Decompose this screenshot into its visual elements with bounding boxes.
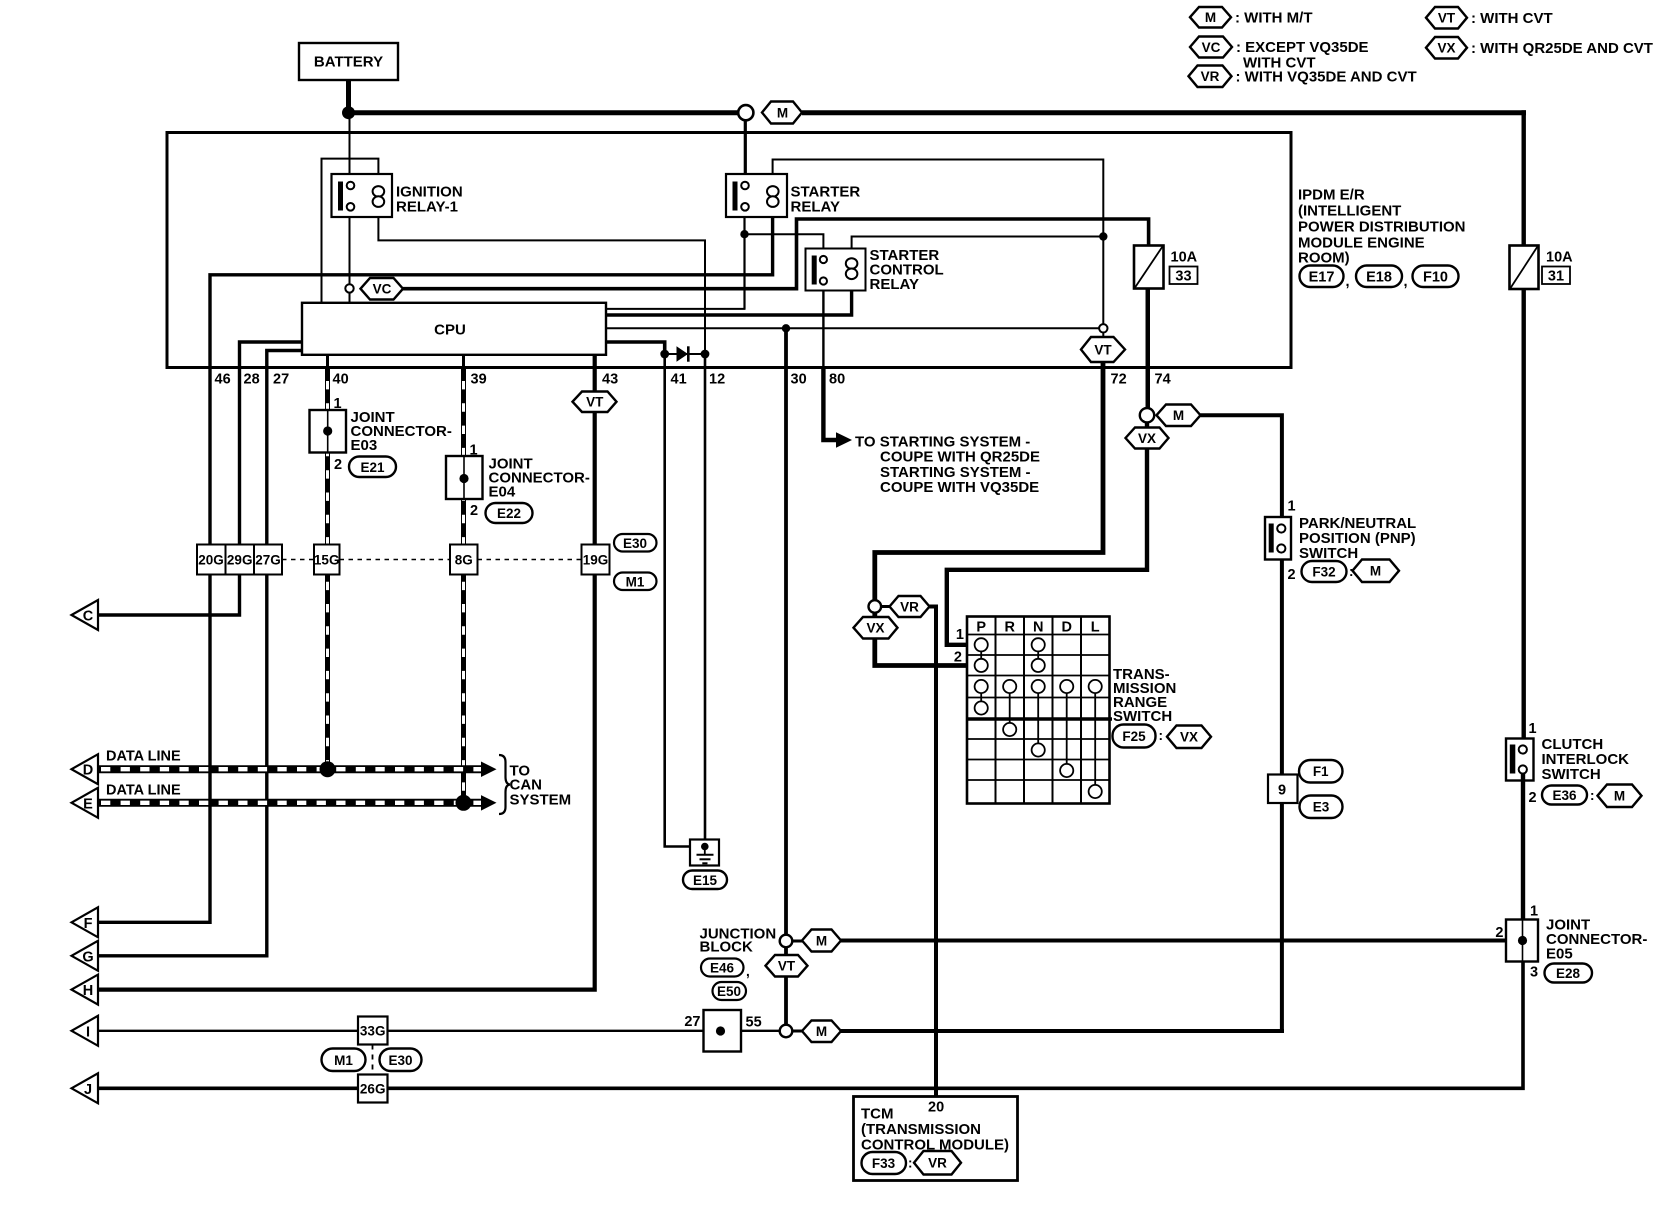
- label fuse number 33: [1170, 267, 1198, 285]
- wire fuse 31 to clutch interlock switch: [1521, 289, 1525, 739]
- svg-text:E05: E05: [1546, 946, 1573, 963]
- label IPDM E/R: [1298, 187, 1466, 267]
- connector hexagon VT on wire 43: [573, 392, 617, 413]
- connector oval E15: [683, 871, 727, 890]
- wire CPU to diode: [606, 342, 665, 350]
- svg-text:DATA LINE: DATA LINE: [106, 783, 181, 799]
- svg-text:POWER DISTRIBUTION: POWER DISTRIBUTION: [1298, 219, 1466, 236]
- svg-text:R: R: [1004, 620, 1015, 636]
- svg-text:1: 1: [470, 443, 478, 459]
- svg-text:2: 2: [470, 503, 478, 519]
- svg-text:27G: 27G: [255, 553, 281, 568]
- svg-text:39: 39: [471, 372, 487, 388]
- svg-text:M: M: [816, 1024, 827, 1039]
- wire 41 to ground: [665, 354, 705, 847]
- svg-text:IPDM E/R: IPDM E/R: [1298, 187, 1365, 204]
- svg-text:CPU: CPU: [434, 322, 466, 339]
- joint connector E03: [310, 410, 347, 453]
- range switch contact R row5: [1003, 693, 1016, 736]
- svg-text:VT: VT: [1438, 11, 1456, 26]
- legend text EXCEPT VQ35DE WITH CVT: [1236, 39, 1369, 72]
- svg-text:1: 1: [334, 396, 342, 412]
- svg-text::: :: [1590, 788, 1595, 803]
- arrow H: [72, 975, 99, 1005]
- connector hexagon M at F32: [1353, 560, 1400, 583]
- wire 72 down and across to branch: [875, 362, 1103, 601]
- connector hexagon VX at 74: [1126, 422, 1169, 448]
- relay STARTER CONTROL RELAY: [806, 249, 866, 291]
- node battery bus junction: [342, 106, 355, 119]
- node starter relay contact junction: [740, 230, 748, 238]
- svg-text:VR: VR: [928, 1156, 947, 1171]
- label fuse number 31: [1542, 267, 1570, 285]
- svg-text:F33: F33: [872, 1156, 896, 1171]
- svg-text:VC: VC: [373, 282, 392, 297]
- connector oval E17: [1300, 266, 1350, 291]
- wire diode link: [665, 353, 705, 355]
- svg-text:: WITH CVT: : WITH CVT: [1471, 10, 1553, 27]
- svg-text:F10: F10: [1423, 270, 1448, 286]
- svg-text:: EXCEPT VQ35DE: : EXCEPT VQ35DE: [1236, 39, 1369, 56]
- dashed splice links: [282, 559, 582, 561]
- labels P R N D L: [976, 620, 1099, 636]
- wire main battery bus: [349, 110, 739, 115]
- svg-text:80: 80: [829, 372, 845, 388]
- wire CAN data line E: [98, 795, 497, 811]
- svg-text:VT: VT: [586, 395, 604, 410]
- svg-text:M1: M1: [626, 575, 645, 590]
- connector oval E30 lower: [380, 1049, 422, 1072]
- arrow G: [72, 941, 99, 971]
- svg-text:30: 30: [791, 372, 807, 388]
- wire battery drop: [346, 80, 351, 113]
- svg-text:VX: VX: [866, 621, 884, 636]
- legend hexagon VX: [1426, 37, 1467, 59]
- svg-text:2: 2: [1529, 790, 1537, 806]
- svg-text:: WITH QR25DE AND CVT: : WITH QR25DE AND CVT: [1471, 40, 1653, 57]
- splice box 19G: [582, 545, 610, 575]
- svg-text:D: D: [1061, 620, 1071, 636]
- svg-text:M: M: [777, 105, 788, 120]
- svg-text:E22: E22: [497, 506, 521, 521]
- connector box 9 on PNP wire: [1268, 775, 1298, 804]
- wire clutch pin2 to E05 pin1: [1521, 774, 1525, 921]
- svg-text:TCM: TCM: [861, 1106, 894, 1123]
- range switch contacts row1: [975, 638, 1045, 651]
- label transmission range switch: [1113, 666, 1176, 725]
- connector hexagon M at junction 2: [792, 1021, 841, 1043]
- svg-text:M: M: [1173, 408, 1184, 423]
- svg-text:2: 2: [954, 650, 962, 666]
- connector oval E3: [1300, 796, 1343, 819]
- label joint connector E03: [351, 409, 452, 454]
- connector oval E21: [349, 457, 396, 478]
- svg-text:27: 27: [684, 1014, 700, 1030]
- arrow to starting system: [836, 432, 852, 448]
- switch clutch interlock: [1506, 739, 1534, 781]
- dashed link 33G 26G: [372, 1045, 374, 1075]
- svg-text:E: E: [83, 796, 93, 812]
- connector hexagon VT at pin 72: [1081, 337, 1125, 362]
- wire VR to TCM: [930, 607, 937, 1097]
- CPU box: [302, 303, 606, 355]
- splice box 33G: [358, 1017, 388, 1045]
- svg-text:29G: 29G: [227, 553, 253, 568]
- svg-text:VX: VX: [1437, 41, 1455, 56]
- svg-text:E15: E15: [693, 873, 718, 888]
- svg-text:28: 28: [244, 372, 260, 388]
- wire 27 down to arrow G: [98, 368, 267, 956]
- wire bus to right edge: [802, 110, 1526, 115]
- svg-text:33: 33: [1175, 269, 1191, 285]
- wire 74 branch to range switch pin 1: [947, 449, 1147, 645]
- label park/neutral position switch: [1299, 515, 1416, 562]
- label joint connector E04: [489, 456, 590, 501]
- svg-text:M1: M1: [334, 1053, 353, 1068]
- wire 80 to starting system: [823, 368, 836, 441]
- svg-text:RELAY: RELAY: [870, 276, 919, 293]
- svg-text:E21: E21: [360, 460, 385, 475]
- svg-text:M: M: [1370, 564, 1381, 579]
- label ignition relay-1: [396, 184, 463, 216]
- svg-text:M: M: [1614, 789, 1625, 804]
- range switch contact P row4: [975, 693, 988, 715]
- node circle at 74: [1140, 408, 1154, 422]
- svg-text:E36: E36: [1552, 788, 1577, 803]
- wire CPU to VT circle line: [606, 327, 1100, 329]
- svg-text:: WITH VQ35DE AND CVT: : WITH VQ35DE AND CVT: [1236, 69, 1417, 86]
- node CAN E junction: [456, 795, 472, 811]
- wire VC circle to CPU top: [349, 293, 351, 303]
- wire fuse 33 to pin 74: [1146, 289, 1150, 408]
- svg-text:,: ,: [1346, 274, 1350, 290]
- wire pin 28 from CPU left: [240, 342, 303, 368]
- svg-text:12: 12: [709, 372, 725, 388]
- connector oval M1 lower: [322, 1049, 366, 1072]
- svg-text:33G: 33G: [360, 1024, 386, 1039]
- node branch circle VR VX: [869, 600, 882, 613]
- node junction circle 1: [780, 935, 793, 948]
- svg-text:3: 3: [1530, 965, 1538, 981]
- svg-text:L: L: [1091, 620, 1100, 636]
- label TO CAN SYSTEM: [510, 763, 572, 809]
- node wire 30 junction: [782, 324, 790, 332]
- wire 40 dashed upper: [326, 355, 329, 769]
- wire starter relay contact bottom to CPU line: [743, 211, 745, 309]
- svg-text:E50: E50: [717, 984, 741, 999]
- legend hexagon M: [1190, 7, 1231, 28]
- arrow D: [72, 754, 99, 784]
- svg-text:VR: VR: [1201, 69, 1220, 84]
- svg-text:1: 1: [956, 627, 964, 643]
- svg-text:(INTELLIGENT: (INTELLIGENT: [1298, 203, 1401, 220]
- wire M junction 1 to E05 pin 2: [841, 939, 1506, 943]
- label TCM: [861, 1106, 1009, 1154]
- connector hexagon VX at F25: [1167, 726, 1211, 749]
- wire junction circles link through VT: [784, 947, 788, 1025]
- wire M to PNP pin 1: [1201, 415, 1282, 517]
- connector oval E30: [614, 534, 657, 552]
- connector oval E50: [713, 982, 747, 1000]
- svg-text:SWITCH: SWITCH: [1542, 766, 1601, 783]
- svg-text:COUPE WITH VQ35DE: COUPE WITH VQ35DE: [880, 479, 1039, 496]
- range switch contacts row2: [975, 651, 1045, 672]
- svg-text:10A: 10A: [1171, 250, 1198, 266]
- TCM box: [854, 1097, 1018, 1181]
- svg-text:40: 40: [333, 372, 349, 388]
- node bus split circle: [738, 105, 753, 120]
- connector oval E22: [486, 503, 533, 523]
- svg-text:1: 1: [1530, 904, 1538, 920]
- node diode cathode pin 12: [701, 350, 710, 359]
- arrow F: [72, 907, 99, 937]
- relay IGNITION RELAY-1: [332, 174, 393, 217]
- wire CAN data line D: [98, 762, 497, 778]
- wire 74 down to M circle: [1146, 289, 1150, 409]
- connector oval F33: [862, 1152, 913, 1174]
- wire branch to range switch pin 2: [875, 639, 967, 666]
- wire ignition relay contact top from battery node: [349, 113, 351, 182]
- joint connector E04: [446, 456, 483, 499]
- wire starter relay contact top from bus circle: [744, 120, 747, 182]
- wire control relay coil bottom to CPU: [606, 285, 852, 315]
- connector hexagon M at E36: [1598, 785, 1642, 808]
- svg-text:VR: VR: [900, 599, 919, 614]
- node coil feed junction: [1099, 232, 1107, 240]
- label to starting system: [855, 434, 1040, 497]
- wire ignition relay coil bottom to pin 12 node: [378, 207, 705, 353]
- svg-text:VX: VX: [1180, 730, 1198, 745]
- range switch contact N row6: [1032, 693, 1045, 757]
- wire 46 down to arrow F: [98, 368, 210, 923]
- splice box 15G: [314, 545, 340, 575]
- svg-text:E30: E30: [388, 1053, 412, 1068]
- svg-text:41: 41: [671, 372, 687, 388]
- svg-text:P: P: [976, 620, 986, 636]
- svg-text:SWITCH: SWITCH: [1299, 545, 1358, 562]
- range switch contacts row3: [975, 680, 1102, 693]
- svg-text:E18: E18: [1366, 270, 1392, 286]
- svg-text:BLOCK: BLOCK: [700, 939, 753, 956]
- arrow J: [72, 1073, 99, 1103]
- svg-text:(TRANSMISSION: (TRANSMISSION: [861, 1121, 981, 1138]
- splice box 8G: [450, 545, 478, 575]
- wire ignition relay coil top to CPU top: [322, 159, 379, 303]
- node diode anode: [660, 350, 669, 359]
- svg-text:M: M: [1205, 10, 1216, 25]
- svg-text:F1: F1: [1313, 764, 1329, 779]
- wire stub circle to VT: [1102, 332, 1104, 339]
- wire M junction 2 to PNP pin 2 drop: [841, 1029, 1284, 1033]
- svg-text:E03: E03: [351, 437, 378, 454]
- wire 12 to ground: [704, 354, 707, 843]
- wire PNP pin2 down: [1280, 553, 1284, 1031]
- wire CPU to starter relay contact: [606, 308, 746, 310]
- svg-text:DATA LINE: DATA LINE: [106, 749, 181, 765]
- label junction block: [700, 926, 777, 956]
- connector oval E46: [701, 959, 750, 980]
- connector oval E36: [1542, 786, 1595, 805]
- svg-text:8G: 8G: [455, 553, 473, 568]
- svg-text::: :: [908, 1156, 913, 1171]
- svg-text:F25: F25: [1122, 729, 1146, 744]
- svg-text:9: 9: [1278, 783, 1286, 799]
- svg-text:F: F: [84, 916, 93, 932]
- connector hexagon VR at branch: [881, 596, 929, 617]
- wire starter relay coil top feed: [773, 160, 1104, 237]
- wire 30 down to junction block circle: [784, 328, 788, 935]
- legend hexagon VT: [1426, 7, 1467, 29]
- range switch contact L row8: [1089, 693, 1102, 798]
- svg-text:46: 46: [215, 372, 231, 388]
- svg-text:1: 1: [1529, 721, 1537, 737]
- svg-text:43: 43: [602, 372, 618, 388]
- wire E05 pin3 to J line: [98, 962, 1523, 1089]
- svg-text:J: J: [84, 1082, 92, 1098]
- ground E15: [690, 840, 719, 866]
- wire junction to starter control relay contact: [745, 234, 824, 256]
- svg-text:27: 27: [273, 372, 289, 388]
- connector hexagon VT at junction: [766, 955, 808, 977]
- arrow I: [72, 1016, 99, 1046]
- svg-text:VT: VT: [778, 959, 796, 974]
- wire control relay contact bottom to pin 80: [822, 285, 824, 368]
- diode D1: [677, 346, 689, 361]
- wire ignition relay contact bottom down: [349, 211, 351, 285]
- svg-text:72: 72: [1111, 372, 1127, 388]
- brace TO CAN SYSTEM: [499, 755, 510, 814]
- connector hexagon VX at branch: [854, 613, 898, 639]
- connector oval F32: [1302, 561, 1354, 582]
- connector oval F1: [1299, 760, 1343, 783]
- range switch contact D row7: [1060, 693, 1073, 777]
- connector oval E28: [1545, 964, 1593, 983]
- svg-text:I: I: [86, 1024, 90, 1040]
- svg-text:G: G: [82, 949, 93, 965]
- svg-text:: WITH M/T: : WITH M/T: [1235, 10, 1312, 27]
- svg-text:F32: F32: [1312, 565, 1335, 580]
- svg-text:BATTERY: BATTERY: [314, 54, 383, 71]
- svg-text:20: 20: [928, 1100, 944, 1116]
- svg-text:E04: E04: [489, 484, 516, 501]
- svg-text:20G: 20G: [198, 553, 224, 568]
- svg-text::: :: [1159, 728, 1164, 743]
- svg-text:N: N: [1033, 620, 1043, 636]
- svg-text:E3: E3: [1313, 800, 1330, 815]
- svg-text:19G: 19G: [583, 553, 609, 568]
- svg-text:SWITCH: SWITCH: [1113, 708, 1172, 725]
- svg-text:1: 1: [1288, 499, 1296, 515]
- joint connector E05: [1506, 920, 1538, 962]
- svg-text:E17: E17: [1309, 270, 1335, 286]
- svg-text:M: M: [816, 933, 827, 948]
- svg-text:26G: 26G: [360, 1082, 386, 1097]
- label starter relay: [791, 184, 861, 216]
- wire 39 dashed: [462, 355, 465, 803]
- svg-text:E46: E46: [710, 961, 735, 976]
- svg-text:D: D: [83, 763, 93, 779]
- connector oval M1: [614, 573, 657, 591]
- connector hexagon M at 74: [1157, 405, 1201, 427]
- node junction circle 2: [780, 1025, 793, 1038]
- splice box 26G: [358, 1075, 388, 1103]
- connector hexagon M on bus: [762, 102, 802, 124]
- wire pin 27 from CPU left: [267, 351, 302, 368]
- legend hexagon VC: [1190, 37, 1232, 58]
- wire pin 46 to starter relay coil: [210, 217, 773, 368]
- svg-text:VC: VC: [1202, 40, 1221, 55]
- wire junction down to VT circle: [1102, 237, 1104, 324]
- wire 43 down through VT to arrow H: [98, 355, 595, 990]
- node CAN D junction: [320, 761, 336, 777]
- svg-text:RELAY: RELAY: [791, 199, 840, 216]
- connector hexagon M at junction 1: [792, 930, 841, 952]
- transmission range switch grid: [967, 617, 1112, 804]
- svg-text:VT: VT: [1094, 342, 1112, 357]
- svg-text:74: 74: [1155, 372, 1171, 388]
- svg-text:VX: VX: [1138, 431, 1156, 446]
- wire 28 down to arrow C: [98, 368, 240, 616]
- wire I line: [98, 1030, 780, 1032]
- svg-text:,: ,: [1404, 274, 1408, 290]
- relay STARTER RELAY: [726, 174, 787, 217]
- connector hexagon VC: [361, 278, 404, 300]
- battery: [299, 43, 398, 80]
- legend hexagon VR: [1189, 66, 1232, 88]
- label joint connector E05: [1546, 917, 1647, 963]
- svg-text:RELAY-1: RELAY-1: [396, 199, 458, 216]
- fuse 31: [1510, 246, 1539, 290]
- connector oval F10: [1413, 266, 1459, 288]
- svg-text:31: 31: [1548, 269, 1564, 285]
- connector hexagon VR at TCM: [914, 1151, 961, 1175]
- switch PNP: [1265, 517, 1291, 560]
- connector oval F25: [1113, 725, 1164, 748]
- splice box 20G 29G 27G: [197, 545, 282, 575]
- svg-text:,: ,: [746, 964, 750, 979]
- arrow E: [72, 788, 99, 818]
- svg-text:SYSTEM: SYSTEM: [510, 792, 572, 809]
- wire control relay coil top feed: [852, 237, 1104, 255]
- fuse 33: [1134, 246, 1164, 289]
- wire right side drop to fuse 31: [1521, 110, 1525, 245]
- svg-text:H: H: [83, 983, 93, 999]
- svg-text:ROOM): ROOM): [1298, 250, 1350, 267]
- arrow C: [72, 600, 99, 630]
- svg-text:10A: 10A: [1546, 250, 1573, 266]
- svg-text:2: 2: [1288, 567, 1296, 583]
- svg-text:55: 55: [746, 1015, 762, 1031]
- junction block box: [704, 1010, 742, 1052]
- svg-text:2: 2: [334, 457, 342, 473]
- wire VC feed to fuse 33: [403, 219, 1149, 289]
- svg-text:15G: 15G: [314, 553, 340, 568]
- label clutch interlock switch: [1542, 736, 1630, 783]
- IPDM E/R box: [167, 133, 1291, 368]
- label starter control relay: [870, 247, 944, 293]
- svg-text:C: C: [83, 609, 94, 625]
- svg-text:E30: E30: [623, 536, 647, 551]
- node VC takeoff circle: [345, 284, 353, 292]
- node VT option circle: [1099, 324, 1107, 332]
- svg-text:E28: E28: [1556, 966, 1581, 981]
- connector oval E18: [1356, 266, 1408, 291]
